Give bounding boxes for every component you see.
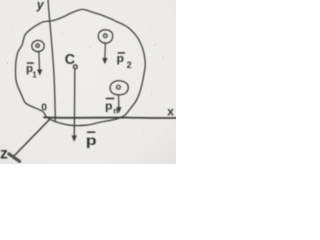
scan speckles: [6, 29, 164, 131]
force P2 vector line: [104, 43, 107, 60]
force P2 application point (outer ring): [98, 30, 112, 43]
svg-text:y: y: [36, 0, 45, 12]
center of gravity point C: [73, 65, 77, 69]
svg-text:z: z: [0, 145, 8, 162]
svg-text:C: C: [65, 52, 76, 68]
svg-text:0: 0: [41, 102, 47, 113]
z-axis corner smudge: [9, 154, 20, 162]
body outline (irregular blob): [16, 9, 146, 125]
y-axis: [48, 0, 55, 121]
force Pn point inner dot: [116, 85, 120, 89]
force P1 point inner dot: [36, 44, 40, 48]
resultant force arrowhead: [72, 136, 77, 142]
svg-text:1: 1: [32, 70, 37, 79]
svg-text:p: p: [117, 53, 125, 65]
force P1 application point (outer ring): [32, 40, 44, 51]
paper background: [0, 0, 176, 164]
z-axis: [13, 120, 50, 158]
force P2 point inner dot: [103, 34, 107, 38]
force P2 arrowhead: [103, 58, 108, 64]
svg-text:p: p: [86, 134, 97, 149]
force P1 vector line: [38, 52, 41, 72]
x-axis: [44, 116, 176, 119]
svg-text:x: x: [167, 105, 174, 119]
svg-text:p: p: [105, 101, 113, 113]
svg-text:2: 2: [127, 60, 132, 70]
force Pn vector line: [118, 95, 120, 109]
force P1 arrowhead: [37, 70, 42, 76]
resultant force line: [73, 69, 76, 137]
force Pn arrowhead: [117, 107, 122, 113]
svg-text:n: n: [113, 106, 118, 115]
force Pn application point (outer ring): [110, 81, 128, 95]
